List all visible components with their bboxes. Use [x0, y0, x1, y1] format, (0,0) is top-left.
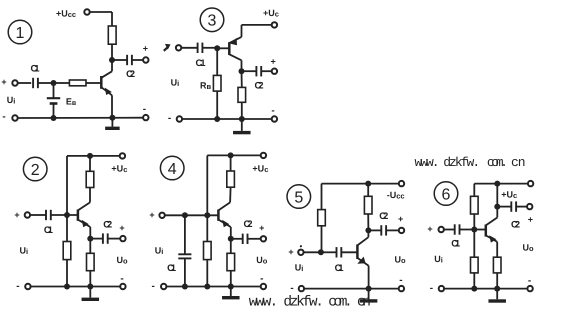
wire bottom rail circuit5	[305, 288, 399, 290]
capacitor C1 circuit2	[46, 210, 51, 220]
wire Rb to base	[86, 82, 100, 84]
watermark www.dzkfw.com.cn (bottom)	[249, 295, 371, 311]
wire left vertical to base 4	[206, 155, 208, 215]
node top rail junction 4	[228, 152, 234, 158]
wire C2 to output 5	[386, 229, 398, 231]
wire rail to collector 6	[496, 184, 498, 218]
ground circuit1	[105, 118, 120, 130]
input terminal circuit3	[176, 45, 181, 50]
node base junction 4	[204, 212, 210, 218]
input terminal circuit2	[25, 212, 30, 217]
svg-text:+: +	[119, 223, 124, 233]
svg-text:dzkfw.: dzkfw.	[443, 155, 480, 170]
capacitor C1 circuit6	[455, 224, 460, 234]
label circle 5	[287, 185, 311, 209]
C2 value label 3	[255, 81, 264, 92]
wire rail to Rc 2	[89, 156, 91, 171]
wire rail to Rc 4	[230, 155, 232, 171]
capacitor C2 circuit3	[256, 66, 261, 76]
wire bottom rail circuit3	[183, 118, 272, 120]
wire collector to Rc 3	[241, 71, 243, 87]
output terminal circuit2	[120, 236, 125, 241]
svg-text:1: 1	[16, 25, 25, 42]
svg-text:Uo: Uo	[116, 255, 128, 265]
wire +Uc to emitter	[242, 25, 272, 37]
wire emitter node to Re 2	[89, 239, 91, 254]
+Uc terminal 2	[120, 153, 125, 158]
svg-text:+: +	[149, 210, 154, 220]
+Uc terminal 3	[272, 22, 277, 27]
svg-text:+Uc: +Uc	[501, 190, 517, 200]
bottom-right terminal circuit1	[143, 115, 148, 120]
svg-text:+: +	[259, 223, 264, 233]
svg-text:2: 2	[31, 162, 40, 179]
minus sign bottom-left 6	[430, 283, 433, 294]
node collector junction	[109, 57, 115, 63]
wire rail to R1 5	[321, 184, 323, 210]
transistor Q1 (NPN)	[101, 71, 112, 117]
resistor Re circuit4	[227, 253, 235, 270]
svg-text:Ui: Ui	[155, 246, 164, 256]
svg-text:C2: C2	[244, 219, 253, 230]
node RB at rail 3	[214, 116, 220, 122]
svg-text:C1: C1	[167, 263, 177, 274]
svg-text:-: -	[143, 104, 146, 115]
Ui input label	[7, 95, 16, 105]
resistor Rc circuit4	[227, 171, 235, 187]
node top rail junction 6	[494, 181, 500, 187]
node base junction 2	[64, 212, 70, 218]
svg-text:Uo: Uo	[523, 243, 535, 253]
resistor Re circuit6	[493, 257, 501, 273]
wire top rail circuit4	[207, 154, 260, 156]
node R1 input junction 5	[318, 249, 324, 255]
node base junction	[51, 80, 57, 86]
plus sign output 2	[119, 223, 124, 233]
C2 value label 2	[103, 220, 112, 231]
resistor Rb (base, horizontal)	[69, 80, 86, 86]
svg-text:5: 5	[294, 189, 303, 206]
plus sign input 2	[14, 210, 19, 220]
Ui input label 5	[295, 263, 304, 273]
label circle 1	[8, 20, 32, 44]
minus sign right output 5	[399, 275, 402, 286]
svg-text:C2: C2	[255, 81, 264, 92]
transistor Q2 (NPN)	[78, 202, 90, 238]
svg-text:-: -	[120, 274, 123, 285]
capacitor C1 circuit4 (vertical)	[178, 215, 191, 286]
minus sign bottom-left 4	[152, 281, 155, 292]
resistor RB circuit3	[213, 75, 221, 91]
+Uc supply label 3	[263, 8, 279, 18]
resistor Rc circuit3	[238, 87, 246, 102]
label circle 4	[160, 156, 184, 180]
wire junction to C1 5	[321, 251, 337, 253]
svg-text:C2: C2	[126, 69, 135, 80]
resistor Rb circuit2	[63, 242, 71, 260]
plus sign input 5	[288, 247, 293, 257]
wire junction to RB 3	[216, 48, 218, 75]
Ui input label 3	[171, 78, 180, 88]
ground circuit6	[488, 289, 506, 303]
C2 value label 5	[379, 211, 388, 222]
node base junction 3	[214, 45, 220, 51]
plus sign output 6	[528, 215, 533, 225]
wire top rail circuit2	[67, 155, 119, 157]
wire emitter node to Re 4	[230, 239, 232, 254]
output terminal circuit1	[143, 57, 148, 62]
watermark www.dzkfw.com.cn (top right)	[415, 155, 526, 170]
output terminal circuit4	[261, 236, 266, 241]
capacitor C1 circuit3	[198, 43, 203, 53]
label circle 6	[434, 182, 458, 206]
node Rb at rail 2	[64, 284, 70, 290]
wire collector node to C2 3	[242, 70, 257, 72]
+Uc supply label 2	[111, 164, 127, 174]
wire collector node to C2	[112, 59, 127, 61]
capacitor C2	[127, 55, 132, 65]
RB value label	[200, 81, 212, 91]
resistor R1 circuit5	[318, 210, 326, 226]
bottom-right terminal circuit3	[272, 116, 277, 121]
svg-text:C2: C2	[103, 220, 112, 231]
output terminal circuit3	[272, 69, 277, 74]
Uo output label 4	[256, 255, 268, 265]
transistor Q6 (NPN)	[474, 218, 497, 258]
wire top rail circuit5	[322, 183, 399, 185]
Ui input label 4	[155, 246, 164, 256]
plus sign output1	[143, 44, 148, 54]
resistor Rc (collector)	[108, 26, 116, 44]
transistor Q3 (PNP)	[229, 37, 241, 71]
node Rb2 at rail 6	[471, 286, 477, 292]
resistor Rc circuit5	[364, 196, 372, 214]
svg-text:C1: C1	[44, 225, 54, 236]
capacitor C2 circuit4	[243, 234, 248, 244]
input terminal circuit6	[439, 227, 444, 232]
-Ucc supply label 5	[387, 190, 405, 200]
transistor Q4 (NPN)	[218, 202, 230, 238]
wire C1 to base junction	[38, 82, 54, 84]
bottom-left terminal circuit1	[12, 115, 17, 120]
wire Rb to rail 2	[66, 260, 68, 287]
+Uc supply label 6	[501, 190, 517, 200]
node C1 at rail 4	[182, 284, 188, 290]
wire base junction to Rb 4	[206, 215, 208, 241]
svg-text:Eв: Eв	[66, 97, 77, 107]
Ui input label 6	[434, 254, 443, 264]
resistor Rc circuit2	[86, 171, 94, 187]
svg-text:-: -	[271, 106, 274, 117]
wire C1 to base 2	[51, 214, 78, 216]
capacitor C1	[33, 78, 38, 88]
-Ucc terminal 5	[399, 181, 404, 186]
svg-text:+: +	[270, 57, 275, 67]
wire Rc to collector node 5	[367, 214, 369, 230]
ground circuit5	[360, 289, 378, 303]
node Re at rail 4	[228, 284, 234, 290]
svg-text:-: -	[2, 112, 5, 123]
svg-text:-: -	[260, 274, 263, 285]
svg-text:C1: C1	[335, 263, 345, 274]
node emitter at rail 5	[366, 286, 372, 292]
ground circuit4	[222, 287, 240, 300]
wire C2 to output 3	[261, 70, 271, 72]
C1 value label 5	[335, 263, 345, 274]
node emitter at rail	[109, 115, 115, 121]
node Rb at rail 4	[204, 284, 210, 290]
bottom-left terminal circuit4	[161, 284, 166, 289]
capacitor C1 circuit5	[337, 247, 342, 257]
output terminal circuit5	[399, 228, 404, 233]
svg-text:+: +	[427, 224, 432, 234]
input terminal circuit1	[12, 80, 17, 85]
bottom-left terminal circuit2	[25, 284, 30, 289]
ground circuit3	[233, 119, 251, 134]
bottom-left terminal circuit3	[177, 116, 182, 121]
svg-text:+Uc: +Uc	[263, 8, 279, 18]
wire C2 to output 6	[516, 206, 526, 208]
bottom-left terminal circuit6	[439, 286, 444, 291]
svg-text:Rв: Rв	[200, 81, 212, 91]
wire Rb1 to base 6	[473, 214, 475, 230]
C1 value label 2	[44, 225, 54, 236]
wire Rb to rail 4	[206, 260, 208, 287]
plus sign input1	[1, 77, 6, 87]
small dot above input terminal 5	[300, 245, 302, 247]
svg-text:-: -	[528, 275, 531, 286]
svg-text:+: +	[143, 44, 148, 54]
transistor Q5 (PNP)	[357, 230, 368, 288]
minus sign bottom-left 2	[16, 281, 19, 292]
wire rail to Rb1 6	[473, 184, 475, 197]
wire junction to Rb	[54, 82, 70, 84]
node Re at rail 6	[494, 286, 500, 292]
resistor Re circuit2	[87, 253, 95, 270]
wire collector node to C2 6	[497, 206, 511, 208]
bottom-right terminal circuit4	[261, 284, 266, 289]
svg-text:cn: cn	[357, 295, 371, 311]
node collector junction 6	[494, 204, 500, 210]
bottom-right terminal circuit6	[527, 286, 532, 291]
svg-text:Uo: Uo	[394, 255, 406, 265]
C2 value label 6	[511, 220, 520, 231]
wire C2 to output 4	[248, 238, 261, 240]
wire resistor to collector node	[111, 44, 113, 71]
svg-text:cn: cn	[511, 155, 526, 170]
svg-text:C1: C1	[31, 64, 41, 75]
svg-text:www.: www.	[415, 155, 440, 170]
+Uc terminal 4	[261, 153, 266, 158]
svg-text:www.: www.	[249, 295, 279, 311]
label circle 3	[200, 8, 224, 32]
wire Re to rail 6	[496, 273, 498, 289]
Uo output label 2	[116, 255, 128, 265]
wire bottom rail circuit4	[167, 286, 260, 288]
minus sign right output 2	[120, 274, 123, 285]
+Ucc supply label	[56, 9, 76, 19]
svg-text:dzkfw.: dzkfw.	[283, 295, 324, 311]
minus sign right output 3	[271, 106, 274, 117]
svg-text:Ui: Ui	[434, 254, 443, 264]
battery EB	[47, 83, 60, 118]
wire emitter node to C2 2	[90, 238, 103, 240]
minus sign right output 6	[528, 275, 531, 286]
wire top rail circuit6	[474, 183, 527, 185]
ground circuit2	[82, 287, 100, 302]
wire emitter node to C2 4	[231, 238, 243, 240]
wire collector node to C2 5	[368, 229, 381, 231]
bottom-right terminal circuit5	[399, 286, 404, 291]
Uo output label 6	[523, 243, 535, 253]
wire C1 to base junction 6	[460, 229, 475, 231]
capacitor C2 circuit5	[381, 225, 386, 235]
svg-text:Ui: Ui	[295, 263, 304, 273]
wire RB to rail 3	[216, 91, 218, 119]
wire C1 to base 5	[341, 251, 357, 253]
svg-text:Uo: Uo	[256, 255, 268, 265]
C1 value label	[31, 64, 41, 75]
wire Rc to collector 2	[89, 188, 91, 203]
svg-text:+: +	[288, 247, 293, 257]
Ui input label 2	[20, 246, 29, 256]
wire C1 to base junction 3	[203, 47, 218, 49]
resistor Rb1 circuit6	[471, 196, 479, 214]
svg-text:+Uc: +Uc	[252, 164, 268, 174]
svg-text:+Uc: +Uc	[111, 164, 127, 174]
minus sign bottom-left 3	[168, 113, 171, 124]
wire C2 to output 2	[108, 238, 120, 240]
wire base junction to Rb2 6	[473, 230, 475, 258]
Uo output label 5	[394, 255, 406, 265]
wire input to C1 3	[182, 47, 198, 49]
svg-text:C1: C1	[451, 239, 461, 250]
capacitor C2 circuit6	[511, 201, 516, 211]
plus sign output 5	[398, 214, 403, 224]
minus sign bottom-left 1	[2, 112, 5, 123]
node emitter junction 2	[87, 236, 93, 242]
minus sign bottom-left 5	[290, 283, 293, 294]
svg-text:+: +	[398, 214, 403, 224]
wire Rc to rail 3	[241, 102, 243, 119]
svg-text:C2: C2	[511, 220, 520, 231]
svg-text:4: 4	[168, 161, 177, 178]
bottom-left terminal circuit5	[299, 286, 304, 291]
output terminal circuit6	[527, 204, 532, 209]
C1 value label 4	[167, 263, 177, 274]
wire input to junction 5	[304, 251, 321, 253]
node top rail junction 5	[365, 181, 371, 187]
node Rc at rail 3	[239, 116, 245, 122]
svg-text:+: +	[528, 215, 533, 225]
wire input to C1 6	[444, 229, 454, 231]
resistor Rb circuit4	[204, 242, 212, 260]
label circle 2	[23, 157, 47, 181]
node Re at rail 2	[87, 284, 93, 290]
svg-text:C1: C1	[196, 58, 207, 69]
svg-text:-: -	[152, 281, 155, 292]
minus sign right output 4	[260, 274, 263, 285]
wire +Ucc to resistor	[90, 12, 112, 26]
EB value label	[66, 97, 77, 107]
svg-text:-: -	[399, 275, 402, 286]
svg-text:com.: com.	[328, 295, 353, 311]
node EB at rail	[51, 115, 57, 121]
node emitter junction 4	[228, 236, 234, 242]
node C1 tap junction 4	[182, 212, 188, 218]
node collector junction 5	[365, 227, 371, 233]
svg-text:3: 3	[208, 13, 217, 30]
C1 value label 3	[196, 58, 207, 69]
wire base junction to Rb 2	[66, 215, 68, 242]
wire Rc to collector 4	[229, 187, 232, 202]
node collector junction 3	[239, 68, 245, 74]
svg-text:+: +	[14, 210, 19, 220]
svg-text:-: -	[168, 113, 171, 124]
svg-text:Ui: Ui	[20, 246, 29, 256]
node top rail junction 2	[87, 153, 93, 159]
input terminal circuit5	[298, 250, 303, 255]
plus sign input 4	[149, 210, 154, 220]
wire bottom rail circuit1	[18, 117, 143, 119]
+Ucc terminal	[84, 9, 89, 14]
C2 value label	[126, 69, 135, 80]
plus sign input 6	[427, 224, 432, 234]
input terminal circuit4	[159, 213, 164, 218]
svg-text:+Ucc: +Ucc	[56, 9, 76, 19]
wire bottom rail circuit2	[31, 286, 120, 288]
wire rail to Rc 5	[367, 184, 369, 197]
svg-text:-Ucc: -Ucc	[387, 190, 405, 200]
svg-text:Ui: Ui	[7, 95, 16, 105]
+Uc supply label 4	[252, 164, 268, 174]
wire input to base 4	[165, 214, 218, 216]
bottom-right terminal circuit2	[120, 284, 125, 289]
svg-text:-: -	[16, 281, 19, 292]
node base junction 6	[471, 227, 477, 233]
svg-text:com.: com.	[487, 155, 508, 170]
resistor Rb2 circuit6	[471, 257, 479, 273]
wire input to C1	[18, 82, 31, 84]
wire R1 to input junction 5	[321, 226, 323, 253]
wire Rb2 to rail 6	[473, 273, 475, 289]
plus sign output 4	[259, 223, 264, 233]
plus sign output 3	[270, 57, 275, 67]
svg-text:-: -	[290, 283, 293, 294]
wire base lead 3	[217, 47, 229, 49]
svg-text:6: 6	[442, 186, 451, 203]
wire C2 to output terminal	[132, 59, 143, 61]
svg-text:+: +	[1, 77, 6, 87]
input arrow symbol 3	[164, 44, 171, 51]
C2 value label 4	[244, 219, 253, 230]
C1 value label 6	[451, 239, 461, 250]
svg-text:-: -	[430, 283, 433, 294]
wire left vertical to base 2	[66, 156, 68, 215]
wire Re to rail 4	[230, 271, 232, 287]
svg-text:C2: C2	[379, 211, 388, 222]
svg-text:Ui: Ui	[171, 78, 180, 88]
minus sign right output 1	[143, 104, 146, 115]
capacitor C2 circuit2	[103, 233, 108, 243]
wire Re to rail 2	[89, 271, 91, 287]
supply terminal circuit6	[528, 181, 533, 186]
wire bottom rail circuit6	[445, 288, 527, 290]
wire input to C1 2	[31, 214, 46, 216]
